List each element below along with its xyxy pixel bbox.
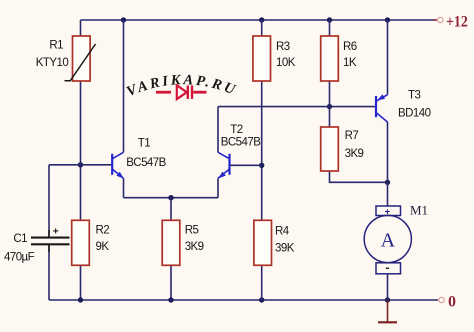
wire R2 bottom leg [80, 265, 82, 300]
svg-text:470µF: 470µF [4, 251, 35, 263]
transistor T2 BC547B [218, 152, 230, 178]
svg-text:+: + [385, 206, 391, 217]
wire C1 top leg [48, 165, 50, 237]
watermark varicap diode symbol [156, 85, 207, 99]
resistor R1 (KTY10 sensor) [65, 36, 96, 81]
resistor R6 [321, 36, 339, 81]
wire T2 collector to T3 base [218, 106, 376, 108]
wire R1 top drop [80, 20, 82, 36]
svg-text:BC547B: BC547B [126, 157, 166, 169]
node junction T1-collector on +12 rail [121, 17, 126, 22]
svg-text:R4: R4 [275, 225, 290, 237]
terminal +12 [438, 17, 443, 22]
svg-text:T2: T2 [230, 124, 242, 136]
wire motor bottom to 0V rail [387, 274, 389, 300]
wire C1 bottom leg [48, 245, 50, 301]
wire R1 bottom to R2 top [80, 81, 82, 220]
svg-text:10K: 10K [276, 57, 296, 69]
node junction R6/R7 on base wire [327, 104, 332, 109]
wire emitter rail T1-T2 [124, 197, 219, 199]
svg-text:+: + [53, 227, 59, 238]
svg-text:-: - [386, 263, 390, 275]
svg-text:39K: 39K [275, 242, 295, 254]
svg-text:KTY10: KTY10 [36, 57, 69, 69]
node junction R2 on 0V rail [78, 297, 83, 302]
svg-text:R7: R7 [345, 130, 359, 142]
svg-text:BD140: BD140 [398, 107, 431, 119]
node junction T3 emitter on +12 rail [385, 17, 390, 22]
resistor R4 [254, 220, 272, 265]
wire R7 bottom to motor node [330, 171, 388, 182]
node junction R5 on emitter rail [168, 195, 173, 200]
wire R6 top drop [329, 20, 331, 36]
wire top +12 rail [81, 19, 437, 21]
wire T1 emitter drop [123, 178, 125, 197]
capacitor C1 [31, 230, 70, 252]
node junction R6 on +12 rail [327, 17, 332, 22]
transistor T1 BC547B [112, 152, 124, 178]
wire T2 emitter drop [217, 178, 219, 197]
ground [378, 300, 397, 322]
svg-text:9K: 9K [96, 241, 110, 253]
svg-text:3K9: 3K9 [185, 241, 204, 253]
wire R4 bottom leg [261, 265, 263, 300]
svg-text:+12: +12 [446, 14, 468, 31]
wire R5 bottom leg [170, 265, 172, 300]
wire R5 top leg [170, 198, 172, 221]
svg-text:R2: R2 [96, 224, 110, 236]
svg-text:0: 0 [448, 294, 456, 311]
svg-text:3K9: 3K9 [345, 148, 364, 160]
node junction R3 on +12 rail [259, 17, 264, 22]
node junction R1/R2/T1-base [78, 162, 83, 167]
transistor T3 BD140 [376, 94, 388, 122]
node junction T2 base on R3/R4 divider [259, 163, 264, 168]
wire T3 emitter to +12 rail [387, 20, 389, 95]
wire T2 collector riser [217, 107, 219, 153]
wire T1 base wire from C1 [49, 164, 112, 166]
node junction R4 on 0V rail [259, 297, 264, 302]
svg-text:A: A [381, 229, 396, 251]
wire R3 top drop [261, 20, 263, 36]
motor M1 [364, 206, 411, 274]
resistor R5 [162, 220, 180, 265]
svg-text:BC547B: BC547B [221, 137, 261, 149]
terminal 0 [439, 297, 444, 302]
resistor R7 [321, 127, 339, 171]
svg-text:M1: M1 [410, 203, 428, 218]
wire stub at +12 terminal [433, 19, 437, 21]
svg-text:1K: 1K [343, 57, 357, 69]
node junction motor on 0V rail [385, 297, 390, 302]
wire R3 bottom to R4 top [261, 81, 263, 220]
node junction R5 on 0V rail [168, 297, 173, 302]
svg-text:C1: C1 [13, 233, 27, 245]
wire T1 collector to +12 rail [123, 20, 125, 152]
wire T2 base wire [230, 164, 262, 166]
svg-text:R3: R3 [276, 41, 290, 53]
wire R6 bottom to R7 top [329, 81, 331, 127]
wire T3 collector to motor [387, 122, 389, 206]
svg-text:T1: T1 [138, 138, 150, 150]
svg-text:T3: T3 [408, 89, 420, 101]
wire bottom 0V rail [49, 299, 438, 301]
svg-text:R1: R1 [49, 39, 63, 51]
svg-text:R6: R6 [343, 41, 357, 53]
resistor R3 [253, 36, 271, 81]
svg-text:R5: R5 [185, 224, 199, 236]
resistor R2 [72, 220, 90, 265]
node junction T3 collector / R7 / motor [385, 180, 390, 185]
